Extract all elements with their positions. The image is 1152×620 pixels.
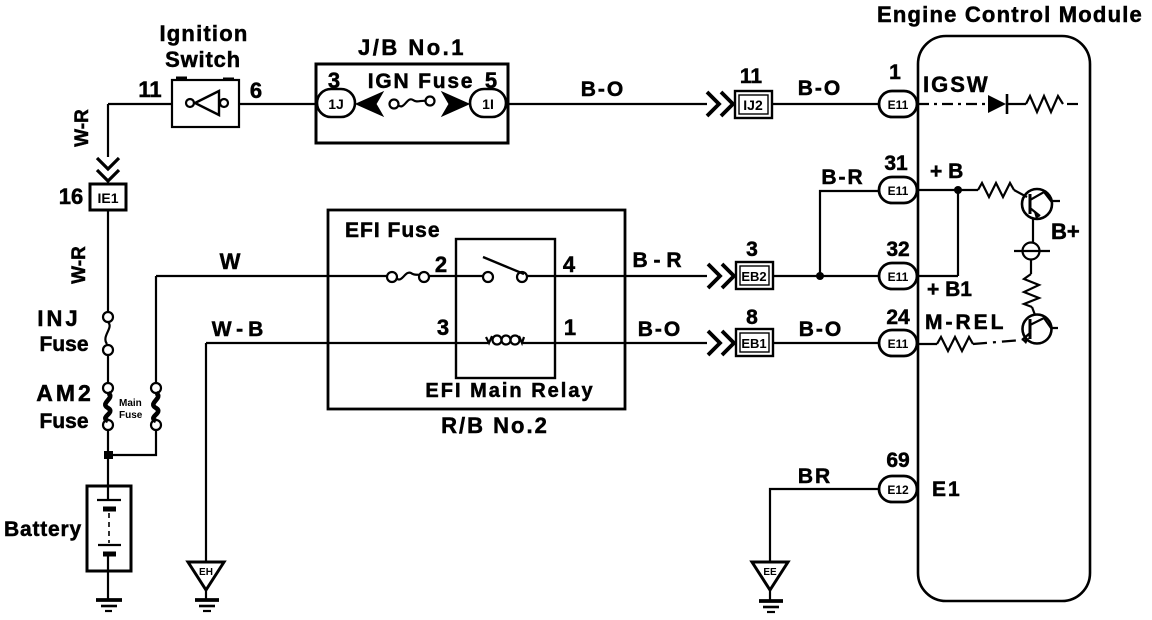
wire diode to resistor <box>1008 103 1026 105</box>
wire main fuse branch vertical <box>155 276 157 383</box>
svg-text:EB1: EB1 <box>741 336 766 351</box>
svg-text:+ B1: + B1 <box>927 278 972 301</box>
diode D1 <box>988 94 1007 114</box>
svg-text:4: 4 <box>563 252 576 277</box>
svg-text:E11: E11 <box>888 270 909 284</box>
wire B-O from IJ2 to E11 <box>772 103 880 105</box>
label R/B No.2 <box>441 413 549 438</box>
svg-text:R/B No.2: R/B No.2 <box>441 413 549 438</box>
ignition switch S1 box <box>172 78 239 127</box>
harness arrows into EB2 <box>708 264 734 288</box>
svg-text:IE1: IE1 <box>97 190 118 206</box>
svg-text:EE: EE <box>763 567 777 578</box>
wire +B riser down to pin 32 <box>957 190 959 276</box>
ground EH triangle <box>188 562 224 611</box>
svg-text:1: 1 <box>889 61 901 84</box>
pin 24 label <box>886 306 910 329</box>
label B-O (2) <box>798 77 843 100</box>
svg-text:B-O: B-O <box>799 318 844 341</box>
svg-text:Fuse: Fuse <box>39 410 88 433</box>
svg-text:E11: E11 <box>888 337 909 351</box>
wire EFI fuse to relay switch <box>429 275 483 277</box>
svg-text:W-R: W-R <box>72 109 93 147</box>
ground EE triangle <box>752 562 788 612</box>
pin 3 label (EB2) <box>746 238 758 261</box>
wire R3 to Q2 <box>1032 307 1035 315</box>
label Main Fuse (small) <box>119 398 143 421</box>
svg-text:B+: B+ <box>1051 219 1080 244</box>
wire B-O from J/B to IJ2 <box>508 103 707 105</box>
svg-text:EB2: EB2 <box>741 269 766 284</box>
svg-text:16: 16 <box>59 184 83 209</box>
svg-text:J/B No.1: J/B No.1 <box>358 35 466 60</box>
wire E11 24 to resistor <box>917 343 937 345</box>
relay switch contacts <box>483 257 527 282</box>
harness arrows down to IE1 <box>97 158 119 184</box>
svg-text:31: 31 <box>884 152 908 175</box>
label M-REL <box>925 311 1007 334</box>
svg-text:B-O: B-O <box>638 318 683 341</box>
pin 31 label <box>884 152 908 175</box>
svg-text:AM2: AM2 <box>36 380 94 406</box>
relay coil L1 <box>486 336 524 345</box>
wire E11 31 to resistor <box>917 189 978 191</box>
label Battery <box>4 518 82 541</box>
svg-text:32: 32 <box>886 238 909 261</box>
label B-O (row 24 right) <box>799 318 844 341</box>
resistor R3 (vertical) <box>1024 274 1039 307</box>
EFI main relay box <box>456 239 555 378</box>
wire battery to ground <box>107 556 109 600</box>
label B-R (row 32) <box>633 249 682 272</box>
wire W-R below IE1 <box>107 210 109 312</box>
label B-R (branch) <box>821 166 864 189</box>
svg-text:6: 6 <box>250 78 262 103</box>
connector E11 pin 32 oval <box>879 263 917 289</box>
wire W-R vertical from corner <box>107 104 109 157</box>
svg-text:Fuse: Fuse <box>119 410 143 421</box>
pin 32 label <box>886 238 909 261</box>
wire EB2 to E11 pin 32 <box>773 275 880 277</box>
connector EB1 box <box>736 329 773 356</box>
connector IE1 box <box>90 184 126 210</box>
svg-text:EFI Main Relay: EFI Main Relay <box>425 380 594 402</box>
J/B No.1 box <box>316 64 508 143</box>
fuse IGN symbol <box>390 97 435 109</box>
resistor R1 (IGSW) <box>1026 96 1063 112</box>
connector E12 pin 69 oval <box>879 476 917 502</box>
svg-text:Engine Control Module: Engine Control Module <box>877 2 1143 27</box>
resistor R2 (+B) <box>978 183 1014 197</box>
resistor R4 (M-REL) <box>937 337 973 351</box>
fuse AM2 symbol <box>103 383 113 430</box>
connector 1J oval <box>317 89 355 117</box>
svg-text:3: 3 <box>437 315 449 340</box>
wire relay coil to EB1 <box>523 342 707 344</box>
connector E11 pin 24 oval <box>879 330 917 356</box>
label IGN Fuse <box>368 70 475 93</box>
wire B-R branch riser <box>820 191 880 276</box>
pin 8 label (EB1) <box>746 306 758 329</box>
wire relay switch to EB2 <box>527 275 707 277</box>
svg-text:W-R: W-R <box>69 246 90 284</box>
wire R4 to Q2 base <box>973 340 1022 344</box>
pin 3 label (J/B) <box>328 68 340 93</box>
svg-text:E1: E1 <box>932 478 962 501</box>
svg-text:B-R: B-R <box>821 166 864 189</box>
svg-text:IGSW: IGSW <box>923 72 990 97</box>
label W-B <box>212 318 269 341</box>
connector EB2 box <box>736 262 773 289</box>
harness arrows into IJ2 <box>707 92 733 116</box>
svg-text:Battery: Battery <box>4 518 82 541</box>
label Ignition Switch <box>159 21 248 72</box>
wire AM2 fuse to battery <box>107 430 109 500</box>
pin 16 label <box>59 184 83 209</box>
label IGSW <box>923 72 990 97</box>
wire ignition switch to J/B <box>239 103 316 105</box>
svg-text:Fuse: Fuse <box>39 333 88 356</box>
pin 11 label (IJ2) <box>740 65 763 88</box>
label E1 <box>932 478 962 501</box>
svg-text:E12: E12 <box>887 483 909 497</box>
wire W-B vertical to ground <box>205 343 207 562</box>
transistor Q2 <box>1022 315 1058 345</box>
svg-text:INJ: INJ <box>37 306 80 331</box>
junction node B-R branch <box>816 272 824 280</box>
svg-text:+ B: + B <box>930 160 963 183</box>
pin 1 label (E11) <box>889 61 901 84</box>
svg-text:1: 1 <box>564 315 576 340</box>
wire E11 32 to riser <box>917 275 958 277</box>
svg-text:IGN Fuse: IGN Fuse <box>368 70 475 93</box>
wire main fuse bottom to junction <box>110 430 156 455</box>
label B+ <box>1051 219 1080 244</box>
label +B1 <box>927 278 972 301</box>
pin 3 label (relay) <box>437 315 449 340</box>
connector 1I oval <box>470 89 506 117</box>
connector E11 pin 1 oval <box>879 91 917 117</box>
svg-text:B-O: B-O <box>581 78 626 101</box>
wire W to EFI fuse <box>156 275 387 277</box>
svg-text:IJ2: IJ2 <box>743 97 763 113</box>
wire BR from E12 to ground <box>770 489 879 562</box>
svg-text:EFI Fuse: EFI Fuse <box>345 219 441 242</box>
pin 6 label <box>250 78 262 103</box>
label EFI Main Relay <box>425 380 594 402</box>
label W <box>220 249 241 274</box>
svg-text:8: 8 <box>746 306 758 329</box>
pin 2 label (relay) <box>435 252 447 277</box>
pin 1 label (relay) <box>564 315 576 340</box>
label AM2 Fuse <box>36 380 94 433</box>
ignition switch contacts <box>186 91 228 115</box>
svg-text:11: 11 <box>740 65 763 88</box>
pin 69 label <box>886 449 909 472</box>
svg-text:B - R: B - R <box>633 249 682 272</box>
svg-text:M-REL: M-REL <box>925 311 1007 334</box>
junction node at battery feed <box>104 451 113 459</box>
svg-text:69: 69 <box>886 449 909 472</box>
node B+ circle <box>1014 243 1050 260</box>
wire B+ node to resistor <box>1030 260 1032 274</box>
wire EB1 to E11 pin 24 <box>773 342 880 344</box>
battery B1 <box>87 486 131 571</box>
svg-text:24: 24 <box>886 306 910 329</box>
fuse EFI symbol <box>387 272 429 282</box>
label W-R (upper) <box>72 109 93 147</box>
svg-text:3: 3 <box>746 238 758 261</box>
ECM enclosure box <box>918 36 1090 601</box>
fuse Main symbol <box>151 383 161 430</box>
wire W-R to ignition switch <box>108 103 172 105</box>
label INJ Fuse <box>37 306 88 356</box>
pin 4 label (relay) <box>563 252 576 277</box>
label B-O (row 24 left) <box>638 318 683 341</box>
svg-text:EH: EH <box>199 567 213 578</box>
label +B <box>930 160 963 183</box>
svg-text:2: 2 <box>435 252 447 277</box>
wire stub after R1 <box>1067 103 1078 105</box>
connector IJ2 box <box>735 91 772 118</box>
svg-text:E11: E11 <box>888 184 909 198</box>
junction node +B <box>954 186 962 194</box>
ground (battery) <box>96 600 122 611</box>
fuse INJ symbol <box>103 312 113 355</box>
label W-R (lower) <box>69 246 90 284</box>
svg-text:B-O: B-O <box>798 77 843 100</box>
pin 11 label <box>138 77 161 102</box>
svg-text:1I: 1I <box>482 96 494 112</box>
harness arrows into EB1 <box>708 331 734 355</box>
label B-O (1) <box>581 78 626 101</box>
svg-text:Ignition: Ignition <box>159 21 248 46</box>
svg-text:E11: E11 <box>888 98 909 112</box>
connector E11 pin 31 oval <box>879 177 917 203</box>
arrow into 1I <box>442 92 469 116</box>
label J/B No.1 <box>358 35 466 60</box>
svg-text:Main: Main <box>119 398 142 409</box>
svg-text:Switch: Switch <box>165 47 241 72</box>
svg-text:11: 11 <box>138 77 161 102</box>
svg-text:1J: 1J <box>328 96 344 112</box>
transistor Q1 <box>1014 189 1060 219</box>
wire INJ fuse to AM2 fuse <box>107 355 109 383</box>
ECM title label <box>877 2 1143 27</box>
svg-text:BR: BR <box>798 465 832 488</box>
label EFI Fuse <box>345 219 441 242</box>
wire E11 pin1 to diode <box>918 103 988 105</box>
label BR <box>798 465 832 488</box>
arrow into 1J <box>356 92 383 116</box>
svg-text:W-B: W-B <box>212 318 269 341</box>
wire W-B horizontal <box>206 342 488 344</box>
wire Q1 emitter down <box>1032 218 1034 243</box>
svg-text:W: W <box>220 249 241 274</box>
pin 5 label (J/B) <box>485 68 497 93</box>
R/B No.2 box <box>328 210 625 409</box>
